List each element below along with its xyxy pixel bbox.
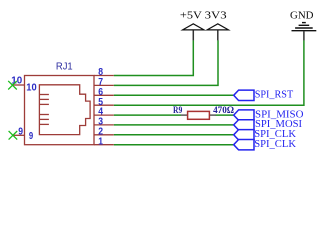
svg-text:1: 1 <box>98 136 103 147</box>
wire R9 to SPI_MISO port <box>216 114 234 116</box>
pin 10 <box>11 75 37 93</box>
wire pin3 to SPI_MOSI port <box>114 124 234 126</box>
svg-text:9: 9 <box>29 131 34 142</box>
svg-text:RJ1: RJ1 <box>56 60 73 72</box>
port SPI_MISO <box>234 108 304 120</box>
pin 1 <box>94 136 114 147</box>
port SPI_RST <box>234 88 294 100</box>
wire pin2 to SPI_CLK port <box>114 134 234 136</box>
pin 3 <box>94 117 114 128</box>
power symbol 3V3 <box>205 11 229 41</box>
pin 2 <box>94 126 114 137</box>
port SPI_MOSI <box>234 118 303 130</box>
pin 9 <box>13 127 34 143</box>
svg-text:10: 10 <box>26 82 37 93</box>
svg-text:SPI_RST: SPI_RST <box>255 88 294 100</box>
svg-text:+5V: +5V <box>180 11 202 22</box>
power symbol GND <box>290 10 316 40</box>
wire pin4 to R9 <box>114 114 181 116</box>
resistor R9 <box>181 111 216 119</box>
pin 8 <box>94 67 114 78</box>
svg-text:GND: GND <box>290 10 314 21</box>
no-connect X pin 10 <box>8 81 17 90</box>
pin 5 <box>94 97 114 108</box>
port SPI_CLK (pin2) <box>234 128 296 140</box>
wire pin6 to SPI_RST port <box>114 94 234 96</box>
svg-text:470Ω: 470Ω <box>213 105 234 116</box>
wire pin1 to SPI_CLK port <box>114 144 234 146</box>
wire pin7 to 3V3 <box>114 40 218 85</box>
RJ1 jack drawing <box>39 85 90 135</box>
pin 6 <box>94 87 114 98</box>
power symbol +5V <box>180 11 204 41</box>
connector RJ1 body <box>25 76 95 145</box>
port SPI_CLK (pin1) <box>234 138 296 150</box>
svg-text:3V3: 3V3 <box>205 11 227 22</box>
wire pin5 to GND <box>114 40 304 105</box>
svg-text:9: 9 <box>18 127 23 138</box>
svg-text:SPI_CLK: SPI_CLK <box>254 138 296 150</box>
no-connect X pin 9 <box>9 131 18 140</box>
wire pin8 to +5V <box>114 40 194 75</box>
svg-text:R9: R9 <box>173 105 182 116</box>
pin 4 <box>94 107 114 118</box>
pin 7 <box>94 77 114 88</box>
